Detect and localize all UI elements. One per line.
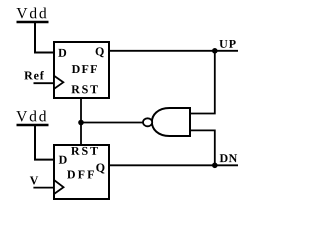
wire DN net to NAND bottom input xyxy=(190,130,215,165)
label Vdd (bottom power rail) xyxy=(16,111,46,122)
junction dot UP xyxy=(212,48,218,54)
wire NAND output to RST net xyxy=(81,122,143,124)
clock triangle (bottom DFF) xyxy=(54,180,64,194)
label pin RST (top DFF) xyxy=(71,85,98,93)
power rail bar Vdd (top) xyxy=(17,21,49,24)
label V input xyxy=(30,176,38,184)
wire Vdd to D input of bottom DFF xyxy=(35,125,53,160)
nand gate U3 body xyxy=(152,108,190,136)
label UP output xyxy=(219,40,235,48)
label pin RST (bottom DFF) xyxy=(71,147,98,155)
junction dot RST xyxy=(78,120,84,126)
label pin Q (bottom DFF) xyxy=(96,164,104,174)
clock triangle (top DFF) xyxy=(54,76,63,89)
label pin D (bottom DFF) xyxy=(59,156,67,164)
label DFF (top) xyxy=(72,65,97,73)
wire Vdd to D input of top DFF xyxy=(35,22,53,53)
wire V to clock input xyxy=(33,187,53,189)
wire Q (top) to UP net xyxy=(110,50,238,52)
junction dot DN xyxy=(212,163,218,169)
power rail bar Vdd (bottom) xyxy=(17,124,49,127)
wire RST vertical between flip-flops xyxy=(80,98,82,145)
wire UP to NAND top input xyxy=(190,51,215,114)
label DN output xyxy=(220,154,237,162)
D flip-flop U2 (bottom DFF) box xyxy=(54,145,109,199)
label DFF (bottom) xyxy=(67,171,94,179)
D flip-flop U1 (top DFF) box xyxy=(54,42,109,98)
label Vdd (top power rail) xyxy=(17,7,47,18)
wire Q (bottom) to DN net xyxy=(110,164,238,166)
label Ref input xyxy=(24,71,44,80)
wire Ref to clock input xyxy=(34,82,54,84)
label pin D (top DFF) xyxy=(58,49,66,57)
label pin Q (top DFF) xyxy=(96,47,104,57)
nand gate U3 output bubble xyxy=(143,118,152,126)
